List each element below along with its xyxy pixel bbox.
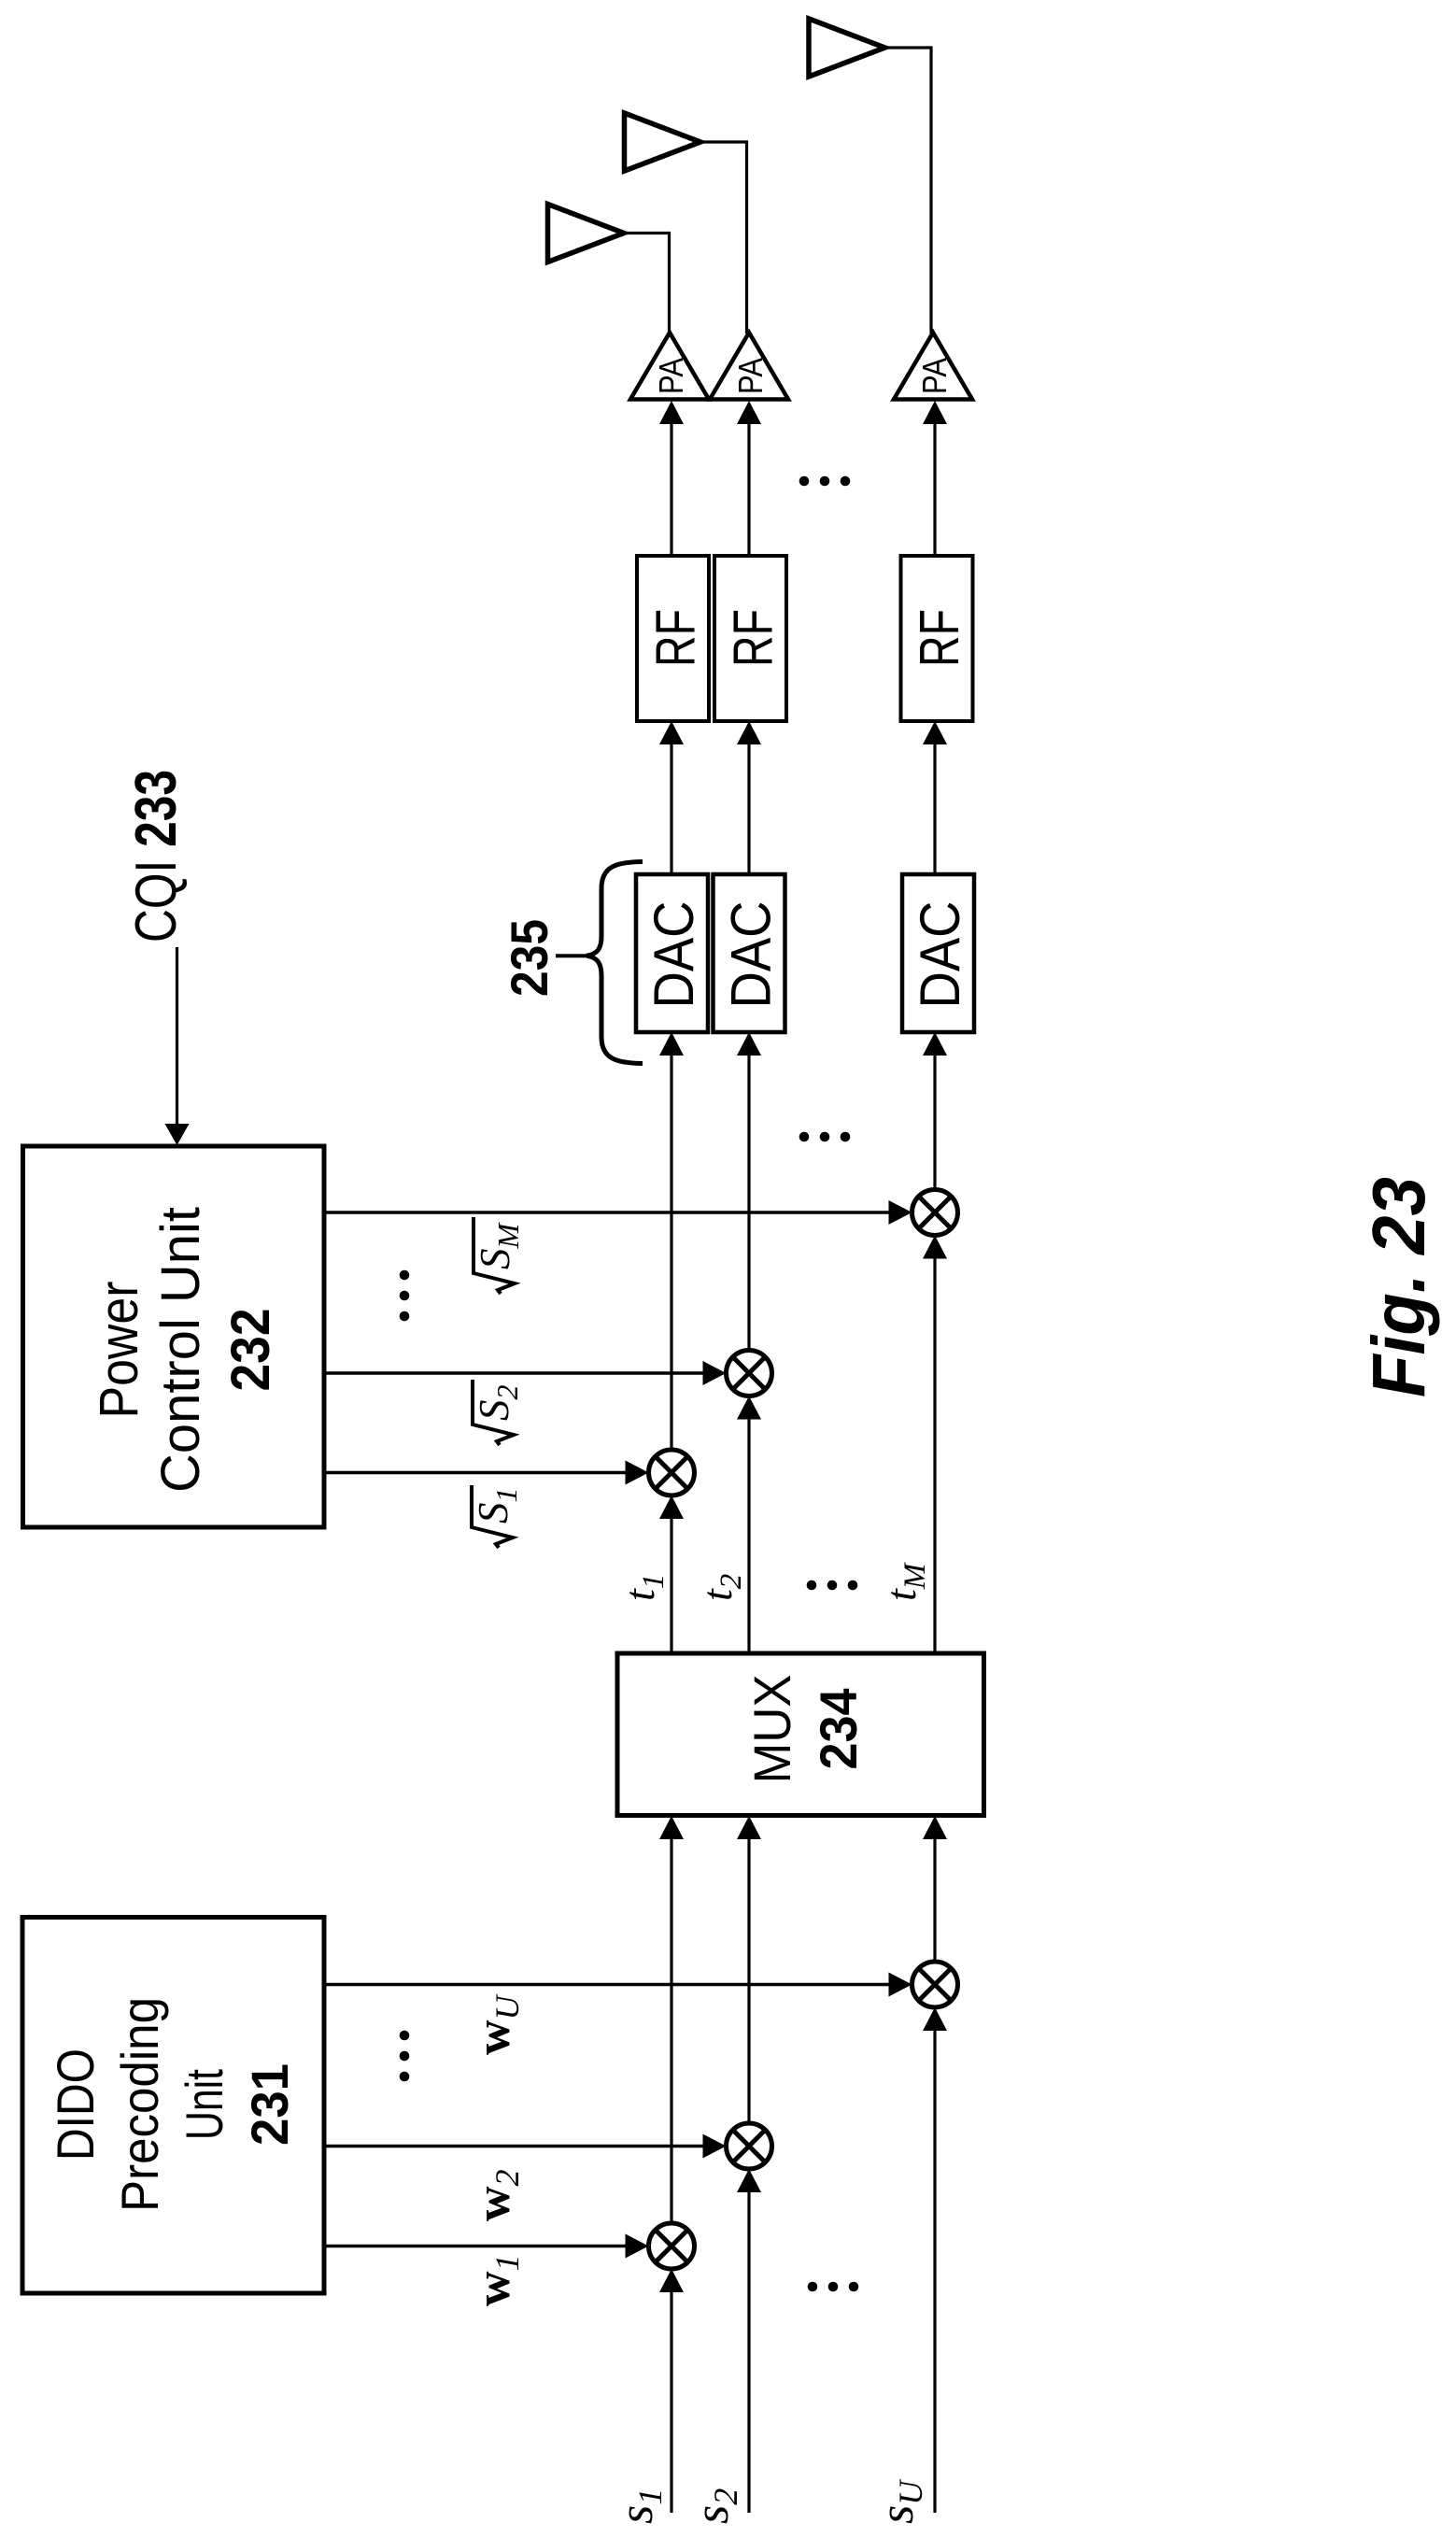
wire mult1 to DAC1 <box>659 1032 684 1450</box>
wire sqrtSM to mult3 <box>324 1200 912 1225</box>
wire DAC3 to RF3 <box>923 721 947 874</box>
svg-text:PA: PA <box>731 358 770 394</box>
wire w2 to mult5 <box>324 2134 727 2159</box>
multiplier w1 <box>649 2223 695 2269</box>
ellipsis PA/RF row <box>799 476 851 487</box>
wire RF3 to PA3 <box>923 401 947 556</box>
label w2 <box>467 2169 526 2221</box>
multiplier S2 <box>727 1351 772 1396</box>
antenna 3 <box>809 19 885 77</box>
label s1 <box>610 2488 669 2524</box>
label sqrtS1 <box>470 1485 523 1548</box>
svg-text:Fig. 23: Fig. 23 <box>1357 1177 1440 1397</box>
wire sqrtS1 to mult1 <box>324 1461 649 1485</box>
ellipsis precoding outputs <box>400 2031 410 2082</box>
DAC unit 1 <box>636 874 708 1032</box>
label sqrtS2 <box>471 1380 524 1445</box>
svg-text:RF: RF <box>723 609 785 667</box>
multiplier S1 <box>649 1450 695 1495</box>
DIDO Precoding Unit 231 <box>22 1918 324 2294</box>
power amplifier PA3 <box>894 333 972 400</box>
DAC unit 3 <box>902 874 974 1032</box>
ellipsis power outputs <box>400 1270 410 1322</box>
svg-text:DAC: DAC <box>909 901 971 1009</box>
wire RF1 to PA1 <box>659 401 684 556</box>
MUX unit 234 <box>617 1653 984 1816</box>
wire MUX to mult2 <box>737 1396 761 1652</box>
label s2 <box>686 2488 744 2524</box>
wire MUX to mult1 <box>659 1495 684 1651</box>
ellipsis s inputs <box>808 2282 859 2292</box>
wire antenna1 to PA1 <box>622 234 670 334</box>
wire wU to mult6 <box>324 1973 912 1997</box>
RF unit 1 <box>637 556 709 721</box>
wire s1 to mult4 <box>659 2269 684 2513</box>
DAC unit 2 <box>714 874 785 1032</box>
brace 235 <box>556 862 643 1064</box>
caption Fig. 23 <box>1357 1177 1440 1397</box>
multiplier SM <box>912 1190 958 1236</box>
ellipsis mult/DAC row <box>799 1132 851 1142</box>
wire MUX to mult3 <box>923 1236 947 1652</box>
svg-text:PA: PA <box>915 358 954 394</box>
label CQI 233 <box>124 770 189 943</box>
label 235 <box>500 919 558 997</box>
svg-text:DAC: DAC <box>643 901 705 1009</box>
multiplier w2 <box>727 2123 772 2169</box>
wire mult2 to DAC2 <box>737 1032 761 1351</box>
label sU <box>870 2479 929 2524</box>
ellipsis t row <box>807 1580 858 1591</box>
wire sU to mult6 <box>923 2007 947 2513</box>
svg-text:PA: PA <box>652 358 690 394</box>
wire antenna2 to PA2 <box>699 142 747 333</box>
power amplifier PA2 <box>710 333 788 400</box>
power amplifier PA1 <box>630 333 709 400</box>
wire s2 to mult5 <box>737 2169 761 2513</box>
wire mult4 to MUX <box>659 1816 684 2223</box>
wire mult3 to DAC3 <box>923 1032 947 1190</box>
wire w1 to mult4 <box>324 2234 649 2259</box>
antenna 1 <box>548 205 625 262</box>
wire antenna3 to PA3 <box>883 48 932 333</box>
label t1 <box>615 1574 671 1601</box>
svg-text:RF: RF <box>645 609 707 667</box>
label wU <box>467 1993 526 2055</box>
wire DAC2 to RF2 <box>737 721 761 874</box>
wire mult6 to MUX <box>923 1816 947 1962</box>
RF unit 3 <box>901 556 973 721</box>
antenna 2 <box>625 113 701 171</box>
wire mult5 to MUX <box>737 1816 761 2123</box>
svg-text:RF: RF <box>909 609 970 667</box>
wire DAC1 to RF1 <box>659 721 684 874</box>
Power Control Unit 232 <box>23 1146 325 1527</box>
svg-text:235: 235 <box>500 919 558 997</box>
label t2 <box>693 1574 748 1601</box>
svg-text:CQI 233: CQI 233 <box>124 770 189 943</box>
multiplier wU <box>912 1962 958 2007</box>
wire RF2 to PA2 <box>737 401 761 556</box>
label w1 <box>467 2254 526 2306</box>
arrow CQI to Power Control Unit <box>165 947 190 1145</box>
RF unit 2 <box>714 556 786 721</box>
wire sqrtS2 to mult2 <box>324 1361 727 1385</box>
label tM <box>877 1562 932 1601</box>
label sqrtSM <box>472 1217 525 1294</box>
svg-text:DAC: DAC <box>720 901 783 1009</box>
